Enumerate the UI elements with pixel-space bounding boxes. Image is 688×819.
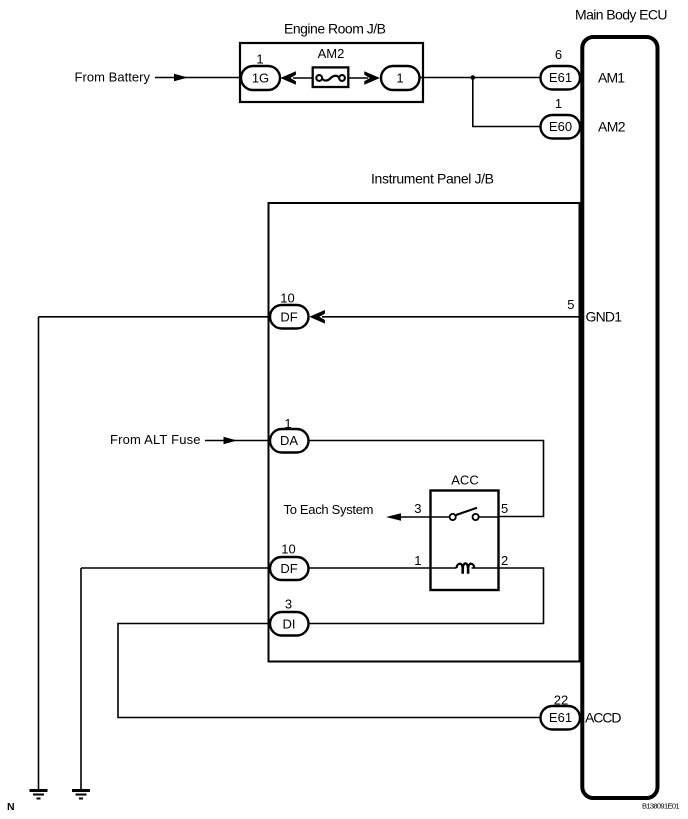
svg-text:3: 3 [285,597,292,612]
svg-text:3: 3 [414,501,421,516]
wire: From Battery lead [155,77,242,79]
wire: DF2 to relay pin 1 [309,567,431,569]
relay coil wires [431,567,457,569]
relay switch contacts [431,516,450,518]
svg-text:10: 10 [281,542,295,557]
svg-text:From Battery: From Battery [75,70,151,85]
svg-text:DI: DI [283,616,296,631]
svg-text:AM2: AM2 [318,46,345,61]
wire: From ALT Fuse lead [205,440,270,442]
Engine Room J/B box [240,43,423,102]
svg-text:5: 5 [567,297,574,312]
svg-text:DF: DF [280,309,297,324]
wire: DF2 left to ground run [81,567,270,569]
connector pill DF (coil row) [270,557,309,580]
connector pill DA [270,429,309,453]
svg-text:DA: DA [280,433,298,448]
wire: left ground vertical [38,317,40,790]
svg-text:E61: E61 [549,710,572,725]
wire: fuse to arrowhead [349,77,368,79]
wire: GND1 to DF1 [322,316,579,318]
svg-text:AM2: AM2 [598,119,626,135]
svg-text:6: 6 [555,47,562,62]
arrowhead: From ALT Fuse (right-pointing triangle) [224,437,238,444]
connector pill E61 (AM1) [541,66,581,90]
svg-text:E61: E61 [549,70,572,85]
svg-text:E60: E60 [549,119,572,134]
arrowhead: From Battery (right-pointing triangle) [174,74,188,81]
wire: relay pin 3 out [398,516,431,518]
Main Body ECU box [582,37,657,798]
arrowhead: into DF1 (left-pointing chevron) [309,310,325,324]
connector pill E61 (ACCD) [541,706,581,730]
wire: relay pin 2 to DI [309,568,544,624]
relay coil [457,563,475,572]
wire: DA to relay pin 5 [309,441,544,517]
svg-text:N: N [7,801,15,813]
arrowhead: into pill 1 (right-pointing chevron) [364,71,380,85]
svg-text:1G: 1G [252,70,269,85]
relay ACC box [431,491,499,591]
svg-text:Engine Room J/B: Engine Room J/B [284,21,386,37]
Instrument Panel J/B box [269,203,580,662]
svg-text:1: 1 [555,96,562,111]
svg-text:B138091E01: B138091E01 [642,802,680,811]
svg-text:5: 5 [501,501,508,516]
svg-text:Main Body ECU: Main Body ECU [575,7,668,23]
arrowhead: into 1G (left-pointing chevron) [280,71,296,85]
svg-text:From ALT Fuse: From ALT Fuse [110,432,201,447]
junction dot [471,75,476,80]
svg-text:ACCD: ACCD [585,710,622,726]
connector pill E60 (AM2) [541,115,581,139]
wire: junction down to E60 row [473,78,541,127]
wire: DI left and down to ACCD row [118,624,541,718]
svg-text:2: 2 [501,553,508,568]
svg-text:1: 1 [396,70,403,85]
connector pill DI [270,612,309,636]
svg-text:ACC: ACC [451,473,478,488]
svg-text:Instrument Panel J/B: Instrument Panel J/B [371,171,494,187]
connector pill DF (GND1 row) [270,305,309,329]
svg-text:AM1: AM1 [598,70,625,86]
ground symbol 2 [72,791,90,799]
svg-text:1: 1 [256,52,263,67]
svg-text:10: 10 [280,291,294,306]
fuse AM2 [313,67,349,87]
svg-text:GND1: GND1 [586,309,623,325]
ground symbol 1 [30,791,48,799]
wire: second ground vertical [80,568,82,790]
svg-text:DF: DF [280,561,297,576]
connector pill 1G [241,66,280,90]
wire: arrowhead to fuse [293,77,313,79]
wire: pill 1 to E61 [420,77,541,79]
svg-text:To Each System: To Each System [284,502,374,517]
svg-text:1: 1 [414,553,421,568]
wire: DF1 left to ground run [39,316,271,318]
arrowhead: To Each System (left-pointing triangle) [386,513,401,521]
connector pill 1 (engine room J/B outlet) [381,66,420,90]
